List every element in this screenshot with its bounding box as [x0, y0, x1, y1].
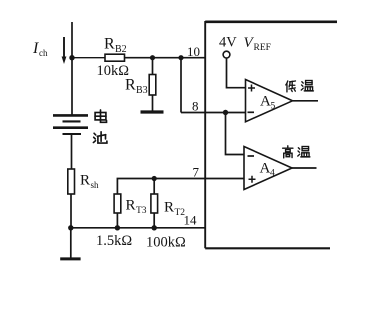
wire: A4 output: [292, 167, 317, 169]
wire: Rsh to bottom rail: [70, 194, 72, 228]
node: main wire / RB2 branch junction: [69, 55, 74, 60]
label 电 (battery char 1): [95, 110, 106, 122]
node: RT3 bottom junction: [115, 225, 120, 230]
node: RB3 junction: [150, 55, 155, 60]
svg-text:R: R: [125, 77, 136, 94]
battery B1 plates: [53, 114, 88, 117]
svg-text:B2: B2: [115, 44, 127, 55]
op-amp A4 triangle: [244, 147, 292, 190]
A4 plus input symbol: [249, 176, 256, 183]
wire: RT2 leads: [153, 179, 155, 228]
svg-text:4: 4: [270, 169, 275, 179]
wire: pin 7 net from RT3 top into box to A4 + input: [117, 179, 244, 195]
label 温 (A5 output char 2): [301, 81, 313, 91]
node: pin-8 branch junction: [178, 55, 183, 60]
ground (under RB3): [141, 110, 164, 113]
svg-text:R: R: [80, 173, 90, 189]
resistor RB2 body: [105, 54, 125, 61]
wire: VREF to A5 + input: [227, 58, 246, 88]
label 温 (A4 output char 2): [298, 147, 310, 157]
svg-text:A: A: [260, 161, 271, 177]
A5 minus input symbol: [248, 111, 255, 113]
node: RT2 bottom junction: [152, 225, 157, 230]
VREF terminal circle: [223, 51, 230, 58]
wire: bottom rail (pin 14 net): [71, 227, 205, 229]
svg-text:14: 14: [184, 213, 198, 228]
wire: ground stem bottom left: [70, 228, 72, 258]
svg-text:5: 5: [271, 102, 276, 112]
wire: pin 8 into box to A5 inverting input: [181, 112, 246, 114]
wire: junction down to A4 inverting input: [226, 113, 245, 155]
svg-text:100kΩ: 100kΩ: [146, 235, 186, 251]
wire: main left vertical from top to battery: [71, 22, 73, 115]
svg-text:R: R: [164, 200, 174, 216]
node: A5/A4 shared input junction: [223, 110, 228, 115]
svg-text:4V: 4V: [219, 35, 237, 51]
CJK glyphs drawn as strokes: [93, 81, 313, 158]
wire: battery to Rsh: [71, 135, 73, 169]
wire: RB2 branch from main wire: [72, 57, 105, 59]
svg-text:8: 8: [192, 99, 199, 114]
ground (bottom left): [60, 257, 80, 260]
op-amp A5 triangle: [246, 80, 293, 122]
label 池 (battery char 2): [93, 132, 107, 143]
node: rail-ground junction: [68, 225, 73, 230]
current arrow Ich: [63, 37, 65, 58]
svg-text:REF: REF: [254, 43, 271, 53]
svg-text:R: R: [104, 36, 115, 53]
svg-text:ch: ch: [39, 48, 48, 58]
svg-text:sh: sh: [91, 180, 100, 190]
node: RT2 top junction: [152, 176, 157, 181]
wire: A5 output: [293, 100, 319, 102]
IC box outline: top edge: [205, 20, 337, 23]
svg-text:R: R: [126, 198, 136, 214]
A4 minus input symbol: [248, 155, 255, 157]
svg-text:1.5kΩ: 1.5kΩ: [96, 233, 132, 249]
wire: RB2 to pin 10 of box: [125, 57, 206, 59]
svg-text:I: I: [32, 40, 39, 57]
IC box outline: bottom edge: [205, 247, 330, 249]
resistor RT3 body: [114, 194, 121, 213]
svg-text:A: A: [260, 94, 271, 110]
wire: RB3 to ground: [152, 95, 154, 111]
resistor RB3 body: [149, 75, 156, 96]
label 低 (A5 output char 1): [286, 81, 296, 92]
label 高 (A4 output char 1): [283, 146, 293, 158]
svg-text:B3: B3: [136, 85, 148, 96]
wire: RB3 vertical: [152, 58, 154, 75]
wire: RT3 bottom lead: [116, 213, 118, 228]
A5 plus input symbol: [248, 85, 255, 92]
wire: drop from pin-10 net to pin 8: [180, 58, 182, 113]
IC box outline: left edge: [204, 21, 206, 248]
resistor Rsh body: [68, 169, 75, 194]
svg-text:7: 7: [193, 165, 200, 180]
svg-text:10: 10: [187, 44, 200, 59]
svg-text:T3: T3: [136, 206, 147, 216]
resistor RT2 body: [151, 194, 158, 213]
